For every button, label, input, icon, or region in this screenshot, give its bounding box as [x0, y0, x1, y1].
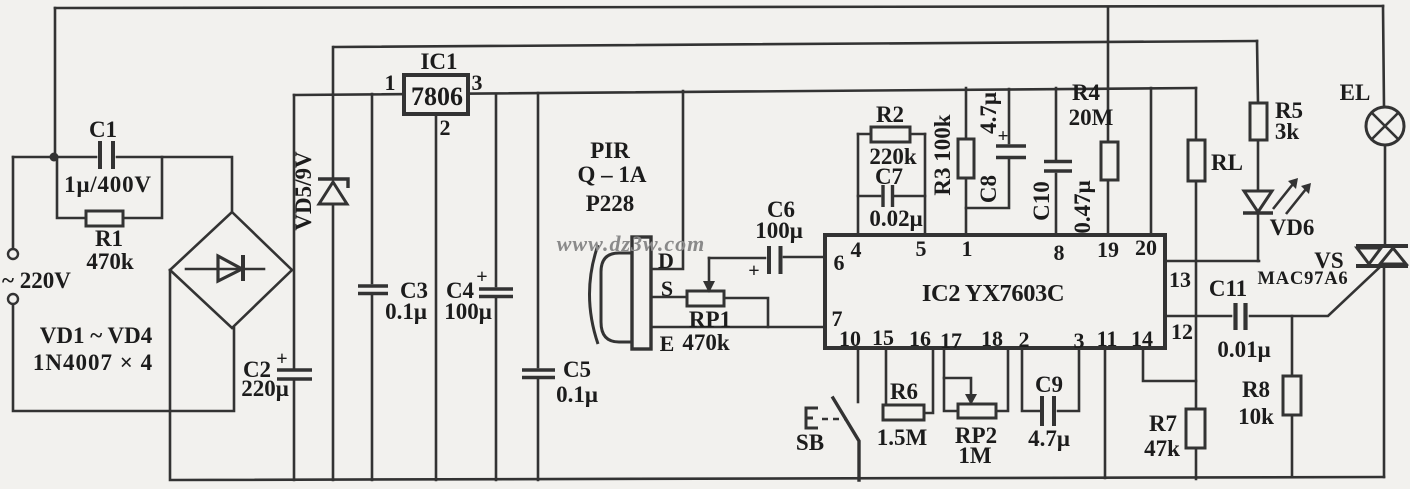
svg-text:8: 8 — [1054, 240, 1065, 265]
svg-text:10k: 10k — [1238, 404, 1274, 429]
svg-text:3: 3 — [1074, 328, 1085, 353]
svg-text:P228: P228 — [586, 191, 635, 216]
svg-text:470k: 470k — [86, 249, 134, 274]
svg-text:0.1μ: 0.1μ — [385, 299, 427, 324]
svg-text:20M: 20M — [1069, 105, 1114, 130]
svg-text:+: + — [476, 266, 487, 288]
svg-text:SB: SB — [796, 430, 824, 455]
svg-text:0.1μ: 0.1μ — [556, 382, 598, 407]
svg-text:R4: R4 — [1072, 80, 1101, 105]
svg-text:5: 5 — [916, 236, 927, 261]
svg-text:C11: C11 — [1209, 276, 1247, 301]
svg-text:0.01μ: 0.01μ — [1217, 337, 1270, 362]
svg-text:C5: C5 — [563, 357, 591, 382]
svg-text:19: 19 — [1097, 237, 1119, 262]
svg-text:4.7μ: 4.7μ — [1028, 426, 1070, 451]
svg-text:EL: EL — [1340, 80, 1371, 105]
svg-text:VD5/9V: VD5/9V — [291, 151, 316, 231]
svg-text:13: 13 — [1169, 267, 1191, 292]
svg-text:R7: R7 — [1149, 411, 1177, 436]
svg-text:MAC97A6: MAC97A6 — [1258, 269, 1349, 289]
svg-text:12: 12 — [1171, 319, 1193, 344]
svg-text:1: 1 — [385, 70, 396, 95]
svg-text:RL: RL — [1211, 150, 1243, 175]
svg-text:3: 3 — [472, 70, 483, 95]
svg-text:VD1 ~ VD4: VD1 ~ VD4 — [40, 323, 153, 348]
svg-text:+: + — [748, 260, 759, 282]
svg-text:R1: R1 — [95, 226, 123, 251]
svg-text:14: 14 — [1131, 326, 1153, 351]
svg-text:3k: 3k — [1275, 119, 1300, 144]
svg-text:18: 18 — [981, 326, 1003, 351]
svg-text:IC1: IC1 — [420, 49, 457, 74]
svg-text:C10: C10 — [1029, 181, 1054, 221]
svg-text:6: 6 — [834, 250, 845, 275]
svg-text:47k: 47k — [1144, 436, 1180, 461]
svg-text:R8: R8 — [1242, 377, 1270, 402]
svg-text:C8: C8 — [976, 175, 1001, 203]
svg-text:E: E — [660, 331, 675, 356]
svg-text:R2: R2 — [876, 102, 904, 127]
svg-text:C9: C9 — [1035, 372, 1063, 397]
svg-text:7806: 7806 — [411, 82, 463, 111]
svg-text:100μ: 100μ — [755, 218, 803, 243]
svg-text:10: 10 — [839, 326, 861, 351]
svg-text:C1: C1 — [89, 117, 117, 142]
svg-text:IC2 YX7603C: IC2 YX7603C — [922, 280, 1064, 307]
svg-text:1N4007 × 4: 1N4007 × 4 — [33, 350, 153, 375]
svg-text:1μ/400V: 1μ/400V — [64, 172, 152, 197]
svg-text:0.02μ: 0.02μ — [869, 206, 922, 231]
svg-text:S: S — [661, 276, 673, 301]
svg-text:1M: 1M — [958, 443, 992, 468]
svg-text:RP1: RP1 — [689, 307, 731, 332]
svg-text:17: 17 — [940, 328, 962, 353]
svg-text:C7: C7 — [875, 164, 903, 189]
svg-text:220μ: 220μ — [241, 376, 289, 401]
svg-text:20: 20 — [1135, 235, 1157, 260]
svg-text:4: 4 — [851, 237, 862, 262]
svg-text:2: 2 — [440, 115, 451, 140]
svg-text:11: 11 — [1097, 326, 1118, 351]
svg-text:100μ: 100μ — [444, 299, 492, 324]
svg-text:+: + — [276, 348, 287, 370]
svg-text:VD6: VD6 — [1270, 215, 1315, 240]
svg-text:2: 2 — [1019, 327, 1030, 352]
svg-text:0.47μ: 0.47μ — [1070, 180, 1095, 233]
svg-text:16: 16 — [909, 326, 931, 351]
svg-text:R3 100k: R3 100k — [930, 114, 955, 195]
svg-text:PIR: PIR — [590, 138, 630, 163]
svg-text:470k: 470k — [682, 330, 730, 355]
svg-text:~ 220V: ~ 220V — [2, 268, 71, 293]
svg-text:1: 1 — [962, 236, 973, 261]
svg-text:R6: R6 — [890, 379, 918, 404]
svg-text:1.5M: 1.5M — [877, 425, 928, 450]
svg-text:Q – 1A: Q – 1A — [578, 162, 647, 187]
svg-text:15: 15 — [872, 325, 894, 350]
svg-text:+: + — [998, 126, 1009, 147]
svg-text:www.dz3w.com: www.dz3w.com — [557, 231, 706, 256]
